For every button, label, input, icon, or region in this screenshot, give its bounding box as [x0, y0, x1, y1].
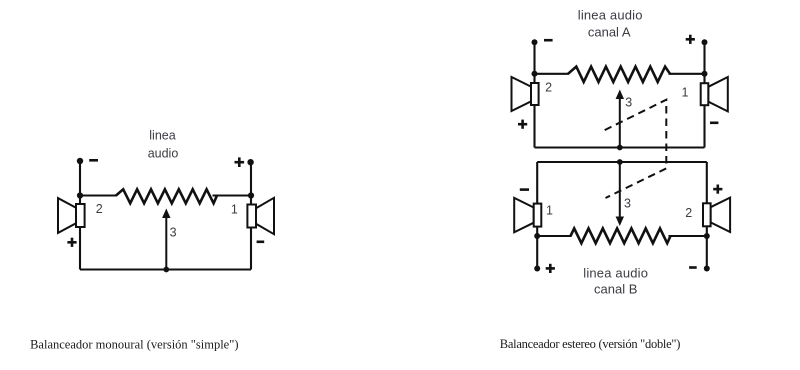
svg-text:3: 3 [624, 197, 631, 211]
svg-text:1: 1 [231, 203, 238, 217]
svg-text:2: 2 [685, 206, 692, 220]
svg-text:3: 3 [170, 225, 177, 239]
svg-text:2: 2 [96, 202, 103, 216]
svg-text:canal B: canal B [594, 282, 637, 297]
svg-text:audio: audio [148, 146, 179, 160]
svg-text:Balanceador monoural (versión: Balanceador monoural (versión "simple") [30, 337, 238, 351]
svg-text:canal A: canal A [588, 24, 631, 39]
svg-text:linea: linea [149, 129, 175, 143]
svg-text:linea audio: linea audio [578, 8, 643, 23]
svg-text:2: 2 [545, 80, 552, 94]
svg-text:3: 3 [625, 95, 632, 109]
svg-text:1: 1 [682, 85, 689, 99]
svg-text:1: 1 [546, 203, 553, 217]
svg-text:linea audio: linea audio [583, 265, 648, 280]
svg-text:Balanceador estereo (versión ": Balanceador estereo (versión "doble") [500, 337, 680, 351]
